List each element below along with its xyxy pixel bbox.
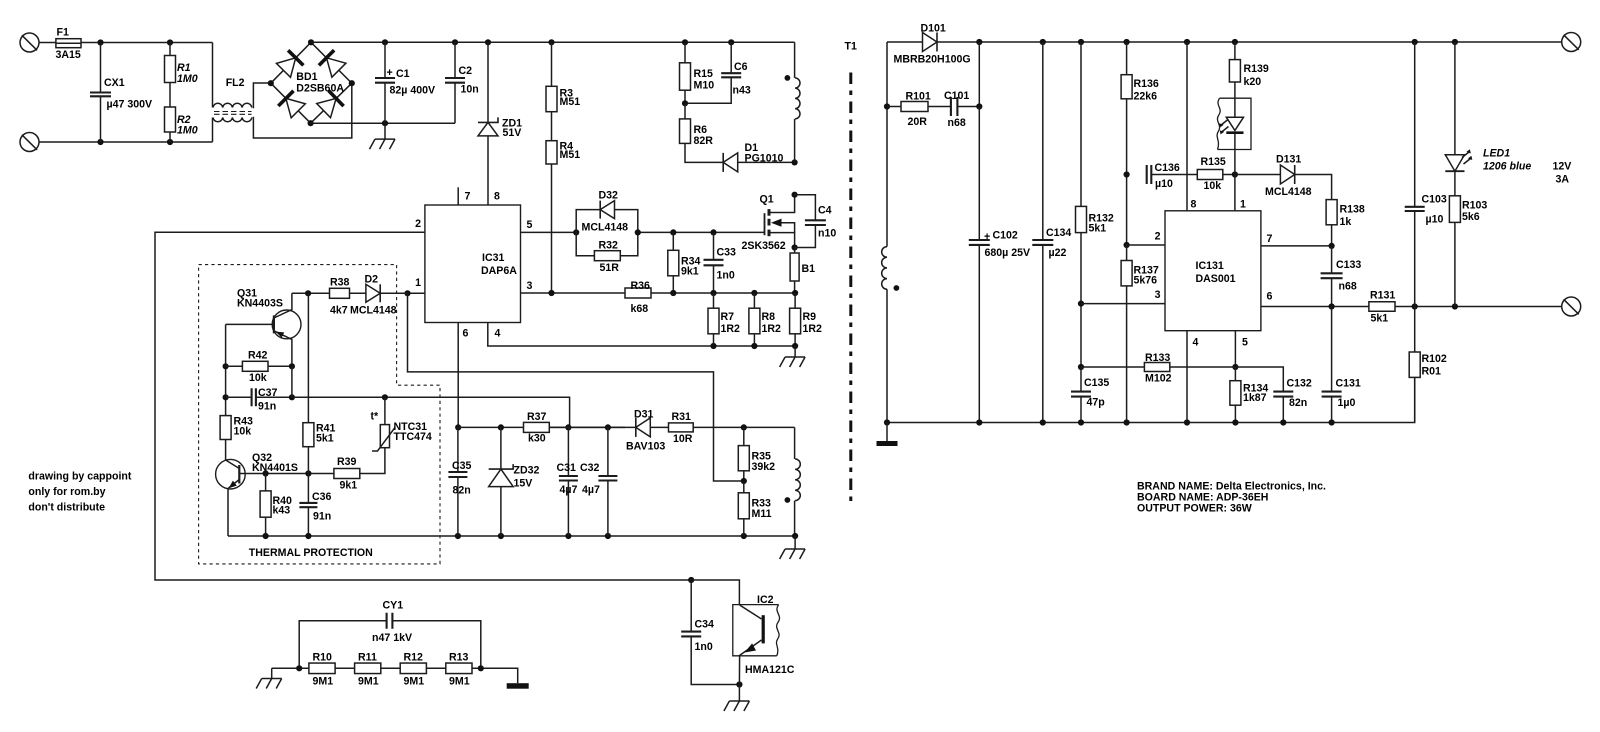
pin 2 row IC131	[1127, 231, 1165, 246]
svg-text:R36: R36	[631, 280, 651, 292]
svg-text:t*: t*	[371, 411, 380, 423]
svg-text:2: 2	[415, 218, 421, 230]
wire (R133 row)	[1081, 366, 1235, 368]
capacitor C37	[226, 387, 295, 413]
output terminal +12V	[1562, 33, 1581, 52]
svg-text:82R: 82R	[694, 135, 714, 147]
svg-text:k43: k43	[273, 505, 291, 517]
transformer T1 secondary winding	[882, 42, 900, 423]
svg-text:KN4403S: KN4403S	[237, 298, 283, 310]
pin 2 label IC31	[415, 218, 421, 230]
ground	[256, 668, 282, 688]
capacitor C103	[1405, 42, 1447, 307]
svg-text:M10: M10	[694, 80, 715, 92]
svg-text:1: 1	[415, 277, 421, 289]
resistor R131	[1369, 290, 1562, 325]
svg-text:C34: C34	[695, 619, 715, 631]
resistor R13	[446, 652, 472, 688]
resistor R42	[226, 350, 295, 385]
svg-text:4k7: 4k7	[330, 305, 348, 317]
svg-text:HMA121C: HMA121C	[745, 664, 795, 676]
svg-text:R136: R136	[1134, 78, 1159, 90]
resistor R139	[1229, 42, 1269, 88]
svg-text:R139: R139	[1244, 63, 1269, 75]
resistor R103	[1449, 171, 1487, 306]
svg-text:ZD32: ZD32	[514, 465, 540, 477]
pin 4 label IC31	[495, 328, 501, 340]
svg-text:91n: 91n	[313, 511, 331, 523]
resistor R3	[546, 42, 580, 111]
wire	[335, 667, 355, 669]
svg-text:51R: 51R	[600, 262, 620, 274]
svg-text:drawing by cappoint: drawing by cappoint	[28, 471, 131, 483]
transistor Q31 (KN4403S)	[226, 288, 301, 367]
capacitor C6	[682, 42, 751, 106]
capacitor C35	[448, 427, 471, 536]
svg-text:Q1: Q1	[760, 194, 774, 206]
svg-text:10k: 10k	[234, 426, 252, 438]
watermark text	[28, 471, 131, 514]
svg-text:R42: R42	[248, 350, 268, 362]
pin 3 label IC31	[527, 280, 533, 292]
svg-text:82µ 400V: 82µ 400V	[390, 85, 436, 97]
wire	[39, 42, 56, 44]
svg-text:R101: R101	[906, 91, 931, 103]
svg-text:12V: 12V	[1553, 161, 1572, 173]
svg-text:R133: R133	[1145, 352, 1170, 364]
pin 3 row IC131	[1081, 289, 1165, 304]
wire (Q31 base column)	[223, 324, 229, 415]
svg-text:D2SB60A: D2SB60A	[296, 83, 344, 95]
svg-text:22k6: 22k6	[1134, 91, 1158, 103]
resistor R37	[524, 411, 550, 445]
svg-text:µ22: µ22	[1049, 247, 1067, 259]
resistor R40	[260, 474, 292, 537]
resistor R12	[400, 652, 426, 688]
pin 5 column IC131	[1232, 331, 1248, 370]
svg-text:C135: C135	[1084, 377, 1109, 389]
svg-text:C102: C102	[993, 230, 1018, 242]
svg-text:CX1: CX1	[104, 77, 125, 89]
svg-text:680µ 25V: 680µ 25V	[985, 247, 1031, 259]
resistor R43	[220, 416, 253, 440]
svg-text:D31: D31	[634, 409, 654, 421]
capacitor C131	[1322, 307, 1361, 423]
svg-text:R138: R138	[1340, 204, 1365, 216]
svg-text:don't distribute: don't distribute	[28, 502, 105, 514]
resistor R4	[546, 112, 580, 293]
svg-text:82n: 82n	[453, 485, 471, 497]
svg-text:BAV103: BAV103	[626, 441, 665, 453]
svg-text:R102: R102	[1422, 353, 1447, 365]
svg-text:91n: 91n	[258, 401, 276, 413]
svg-text:FL2: FL2	[226, 77, 245, 89]
svg-text:C132: C132	[1287, 378, 1312, 390]
svg-text:T1: T1	[845, 41, 857, 53]
wire (pin 2 feedback)	[155, 232, 694, 583]
capacitor C102	[969, 107, 1030, 423]
svg-text:1n0: 1n0	[717, 270, 735, 282]
svg-text:20R: 20R	[908, 116, 928, 128]
pin 6 row IC131	[1261, 291, 1369, 310]
wire	[39, 139, 213, 145]
zener diode ZD1	[478, 42, 522, 205]
wire (bridge negative)	[311, 120, 455, 126]
svg-text:10k: 10k	[249, 372, 267, 384]
resistor R38	[330, 277, 350, 317]
svg-text:R31: R31	[672, 411, 692, 423]
optocoupler IC2 (HMA121C) phototransistor	[691, 580, 795, 685]
svg-text:DAP6A: DAP6A	[481, 265, 517, 277]
svg-text:M11: M11	[752, 508, 772, 520]
ground	[724, 685, 750, 712]
svg-text:9M1: 9M1	[358, 676, 379, 688]
resistor R10	[309, 652, 335, 688]
resistor R1	[165, 43, 198, 86]
svg-text:D101: D101	[921, 23, 946, 35]
svg-text:k68: k68	[631, 303, 649, 315]
capacitor C132	[1235, 367, 1312, 423]
svg-text:R7: R7	[721, 311, 735, 323]
svg-text:C1: C1	[396, 68, 410, 80]
svg-text:7: 7	[1267, 233, 1273, 245]
capacitor C4	[795, 195, 837, 248]
svg-text:2: 2	[1155, 231, 1161, 243]
wire	[549, 424, 636, 430]
diode D1	[723, 142, 798, 172]
svg-text:D2: D2	[365, 274, 379, 286]
svg-text:C103: C103	[1422, 194, 1447, 206]
transformer T1 auxiliary winding	[785, 427, 801, 536]
svg-text:82n: 82n	[1289, 397, 1307, 409]
capacitor C34	[681, 580, 742, 688]
svg-text:10k: 10k	[1204, 180, 1222, 192]
wire (R132 column)	[1078, 301, 1084, 371]
wire (pin 4 row)	[488, 323, 798, 350]
wire	[272, 665, 309, 671]
svg-text:n10: n10	[818, 228, 836, 240]
resistor R33	[738, 481, 771, 536]
wire (HV+ rail)	[311, 39, 795, 45]
chassis ground	[507, 683, 529, 689]
chassis ground	[877, 423, 898, 447]
svg-text:DAS001: DAS001	[1196, 273, 1236, 285]
svg-text:µ10: µ10	[1155, 178, 1173, 190]
svg-text:R131: R131	[1370, 290, 1395, 302]
svg-text:4µ7: 4µ7	[582, 484, 600, 496]
brand name text	[1137, 481, 1326, 515]
svg-text:IC131: IC131	[1196, 260, 1224, 272]
capacitor CY1	[299, 600, 481, 669]
transformer core / isolation line T1	[845, 41, 857, 503]
fuse F1	[56, 27, 82, 62]
svg-text:1206 blue: 1206 blue	[1483, 161, 1531, 173]
wire (aux row)	[693, 424, 794, 430]
svg-text:1M0: 1M0	[177, 73, 198, 85]
svg-text:LED1: LED1	[1483, 148, 1510, 160]
wire	[381, 667, 400, 669]
svg-text:1R2: 1R2	[803, 323, 823, 335]
svg-text:CY1: CY1	[383, 600, 404, 612]
svg-text:47p: 47p	[1087, 397, 1106, 409]
svg-text:only for rom.by: only for rom.by	[28, 486, 105, 498]
svg-text:R37: R37	[527, 411, 547, 423]
svg-text:9k1: 9k1	[681, 266, 699, 278]
svg-text:C35: C35	[452, 460, 472, 472]
svg-text:1R2: 1R2	[721, 323, 741, 335]
capacitor C33	[704, 232, 737, 293]
resistor R32	[576, 232, 638, 274]
svg-text:TTC474: TTC474	[394, 431, 432, 443]
wire	[292, 290, 330, 296]
capacitor C133	[1321, 246, 1362, 307]
zener diode ZD32	[489, 427, 540, 536]
svg-text:1k87: 1k87	[1243, 392, 1267, 404]
wire (Q31 emitter column)	[291, 366, 293, 397]
optocoupler IC131 LED	[1217, 82, 1251, 175]
svg-text:R9: R9	[803, 311, 817, 323]
resistor R11	[355, 652, 381, 688]
svg-text:6: 6	[463, 328, 469, 340]
svg-text:5k1: 5k1	[316, 433, 334, 445]
IC U31 (DAP6A)	[425, 205, 521, 323]
wire (pin 6)	[455, 323, 461, 431]
svg-text:C33: C33	[717, 247, 737, 259]
svg-text:9M1: 9M1	[404, 676, 425, 688]
transistor Q1 (2SK3562 MOSFET)	[742, 192, 798, 252]
svg-text:5k6: 5k6	[1462, 211, 1480, 223]
svg-text:C2: C2	[459, 65, 473, 77]
wire (gate row)	[635, 229, 765, 235]
svg-text:R13: R13	[449, 652, 469, 664]
wire (Q32 base row)	[263, 470, 334, 476]
svg-text:10R: 10R	[673, 433, 693, 445]
svg-text:R103: R103	[1462, 200, 1487, 212]
wire (Vcc row R37)	[458, 424, 625, 430]
svg-text:R15: R15	[694, 68, 714, 80]
svg-text:C134: C134	[1046, 227, 1071, 239]
svg-text:C136: C136	[1155, 162, 1180, 174]
svg-text:B1: B1	[802, 263, 816, 275]
output terminal return	[1562, 297, 1581, 316]
svg-text:1M0: 1M0	[177, 125, 198, 137]
svg-text:1: 1	[1240, 199, 1246, 211]
resistor R132	[1076, 42, 1114, 304]
svg-text:MCL4148: MCL4148	[350, 305, 397, 317]
svg-text:C36: C36	[312, 491, 332, 503]
svg-text:3A15: 3A15	[56, 49, 81, 61]
pin 1 label IC31	[415, 277, 421, 289]
svg-text:C101: C101	[944, 90, 969, 102]
svg-text:4: 4	[495, 328, 501, 340]
capacitor C101	[928, 42, 982, 129]
wire	[1124, 171, 1130, 248]
resistor R136	[1121, 42, 1159, 175]
capacitor C135	[1071, 367, 1109, 423]
diode D131	[1235, 154, 1332, 200]
capacitor C31	[557, 427, 578, 536]
svg-text:MCL4148: MCL4148	[1265, 186, 1312, 198]
svg-text:8: 8	[494, 191, 500, 203]
svg-text:n68: n68	[1339, 281, 1357, 293]
thermistor NTC31 (TTC474)	[371, 397, 432, 451]
svg-text:THERMAL PROTECTION: THERMAL PROTECTION	[249, 547, 373, 559]
wire (pin 3 row)	[521, 290, 626, 296]
svg-text:C37: C37	[258, 387, 278, 399]
diode D32	[576, 190, 638, 234]
svg-text:PG1010: PG1010	[745, 153, 784, 165]
wire (primary ground rail)	[228, 533, 798, 539]
resistor R34	[668, 232, 701, 293]
svg-text:51V: 51V	[503, 127, 522, 139]
resistor R41	[303, 293, 336, 473]
transistor Q32 (KN4401S)	[216, 440, 298, 537]
resistor R101	[887, 91, 931, 129]
pin 7 stub IC31	[458, 187, 470, 205]
svg-text:2SK3562: 2SK3562	[742, 240, 786, 252]
pin 4 column IC131	[1187, 331, 1199, 423]
svg-text:C31: C31	[557, 462, 577, 474]
svg-text:KN4401S: KN4401S	[252, 462, 298, 474]
input terminal J2 (neutral)	[20, 133, 39, 152]
svg-text:1R2: 1R2	[762, 323, 782, 335]
pin 6 label IC31	[463, 328, 469, 340]
svg-text:4µ7: 4µ7	[560, 484, 578, 496]
ferrite bead B1	[790, 248, 815, 294]
input terminal J1 (line)	[20, 33, 39, 52]
svg-text:C6: C6	[734, 61, 748, 73]
svg-text:R01: R01	[1422, 366, 1442, 378]
wire (NTC row)	[292, 394, 570, 427]
svg-text:D131: D131	[1276, 154, 1301, 166]
capacitor C2	[445, 42, 479, 123]
capacitor C1	[375, 42, 435, 123]
pin 1 label IC131	[1235, 175, 1246, 211]
resistor R2	[165, 83, 198, 143]
resistor R31	[650, 411, 693, 445]
inductor FL2 (common-mode choke)	[213, 43, 352, 143]
transformer T1 primary winding	[785, 42, 801, 162]
wire (secondary ground rail)	[884, 377, 1415, 425]
svg-text:C32: C32	[580, 462, 600, 474]
svg-text:M51: M51	[560, 149, 581, 161]
svg-text:3: 3	[1155, 289, 1161, 301]
svg-text:10n: 10n	[461, 84, 479, 96]
resistor R6	[680, 103, 724, 162]
resistor R35	[738, 427, 775, 484]
svg-text:R135: R135	[1201, 156, 1226, 168]
svg-text:5: 5	[527, 219, 533, 231]
resistor R15	[680, 42, 715, 103]
svg-text:n68: n68	[948, 117, 966, 129]
wire	[426, 667, 445, 669]
svg-text:1µ0: 1µ0	[1338, 397, 1356, 409]
svg-text:1n0: 1n0	[695, 641, 713, 653]
wire (secondary top rail)	[887, 41, 923, 43]
thermal protection enclosure (dashed)	[199, 265, 440, 564]
ground	[780, 346, 806, 367]
svg-text:OUTPUT POWER: 36W: OUTPUT POWER: 36W	[1137, 503, 1252, 515]
resistor R36	[625, 280, 651, 315]
pin 5 label IC31	[527, 219, 533, 231]
svg-text:k20: k20	[1244, 76, 1262, 88]
diode D101	[894, 23, 1562, 66]
output rating text	[1553, 161, 1572, 186]
capacitor C32	[580, 427, 617, 536]
wire (pin 8 column)	[1187, 42, 1197, 211]
svg-text:k30: k30	[528, 433, 546, 445]
svg-text:9k1: 9k1	[340, 480, 358, 492]
resistor R135	[1197, 156, 1238, 192]
svg-text:µ47 300V: µ47 300V	[107, 99, 153, 111]
svg-text:5k1: 5k1	[1089, 223, 1107, 235]
svg-text:C4: C4	[818, 205, 832, 217]
wire	[651, 290, 798, 296]
diode D2	[350, 274, 408, 317]
ground	[780, 536, 806, 559]
resistor R133	[1144, 352, 1171, 385]
bridge rectifier BD1	[268, 39, 355, 126]
svg-text:39k2: 39k2	[752, 461, 776, 473]
svg-text:5: 5	[1242, 337, 1248, 349]
svg-text:+: +	[984, 231, 990, 243]
wire (pin 7 row)	[1261, 233, 1335, 249]
ground	[370, 123, 396, 149]
svg-text:+: +	[387, 67, 393, 79]
svg-text:IC31: IC31	[482, 252, 504, 264]
svg-text:1k: 1k	[1340, 216, 1352, 228]
capacitor CX1	[90, 43, 152, 143]
svg-text:7: 7	[465, 191, 471, 203]
resistor R138	[1326, 200, 1365, 246]
svg-text:6: 6	[1267, 291, 1273, 303]
svg-text:µ10: µ10	[1426, 214, 1444, 226]
svg-text:R39: R39	[337, 456, 357, 468]
resistor R102	[1409, 307, 1447, 423]
pin 8 label IC31	[494, 191, 500, 203]
wire	[472, 665, 518, 683]
resistor R8	[749, 293, 781, 346]
svg-text:5k1: 5k1	[1371, 313, 1389, 325]
svg-text:5k76: 5k76	[1134, 275, 1158, 287]
svg-text:8: 8	[1191, 199, 1197, 211]
wire (pin 5 gate row)	[521, 229, 580, 235]
svg-text:IC2: IC2	[757, 594, 774, 606]
IC U131 (DAS001)	[1165, 211, 1261, 331]
svg-text:C131: C131	[1336, 378, 1361, 390]
svg-text:MBRB20H100G: MBRB20H100G	[894, 54, 971, 66]
svg-text:R12: R12	[404, 652, 424, 664]
svg-text:M102: M102	[1145, 373, 1172, 385]
svg-text:D32: D32	[599, 190, 619, 202]
wire (pin1 to R35 junction)	[408, 293, 744, 481]
capacitor C36	[299, 474, 331, 537]
svg-text:R10: R10	[313, 652, 333, 664]
resistor R7	[708, 293, 740, 346]
svg-text:R8: R8	[762, 311, 776, 323]
resistor R134	[1230, 367, 1269, 423]
svg-text:M51: M51	[560, 96, 581, 108]
svg-text:R32: R32	[599, 240, 619, 252]
svg-text:3A: 3A	[1556, 174, 1570, 186]
LED LED1 (1206 blue)	[1445, 42, 1531, 173]
wire (pin 1 node)	[404, 290, 425, 296]
svg-text:R38: R38	[330, 277, 350, 289]
resistor R9	[790, 293, 822, 346]
svg-text:15V: 15V	[514, 478, 533, 490]
wire	[81, 39, 213, 45]
capacitor C136	[1147, 162, 1198, 190]
